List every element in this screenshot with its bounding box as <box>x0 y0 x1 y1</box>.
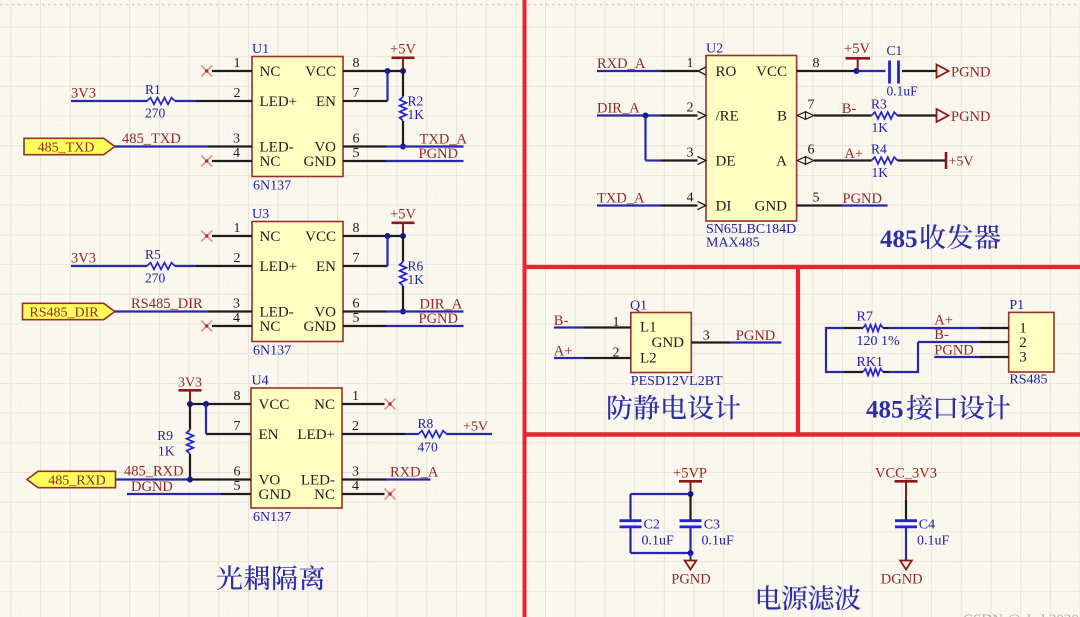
svg-text:LED+: LED+ <box>297 427 335 443</box>
svg-text:DGND: DGND <box>131 479 173 495</box>
wire R3 to PGND port <box>898 114 937 116</box>
U4 pin 6 (VO) <box>190 465 251 480</box>
svg-text:L1: L1 <box>640 320 657 336</box>
svg-text:L2: L2 <box>640 351 657 367</box>
svg-text:5: 5 <box>234 479 241 494</box>
power +5V symbol (U3) <box>390 207 416 237</box>
svg-text:RK1: RK1 <box>857 355 883 370</box>
svg-text:4: 4 <box>233 146 240 161</box>
svg-text:2: 2 <box>613 346 620 361</box>
svg-text:8: 8 <box>353 221 360 236</box>
svg-text:8: 8 <box>813 56 820 71</box>
optocoupler U1 6N137 body <box>252 57 343 177</box>
U4 pin 2 (LED+) <box>342 419 405 434</box>
svg-text:1: 1 <box>234 56 241 71</box>
power bar +5V (R4) <box>946 152 974 170</box>
svg-text:485_RXD: 485_RXD <box>48 473 106 488</box>
svg-text:A: A <box>776 154 787 170</box>
svg-text:485: 485 <box>880 226 918 253</box>
svg-text:0.1uF: 0.1uF <box>917 534 950 549</box>
svg-text:R5: R5 <box>145 247 161 262</box>
svg-text:1K: 1K <box>408 107 425 122</box>
transceiver U2 MAX485 body <box>706 56 797 222</box>
svg-text:NC: NC <box>314 397 335 413</box>
svg-text:3V3: 3V3 <box>71 251 96 267</box>
svg-text:DI: DI <box>716 199 732 215</box>
svg-text:RS485_DIR: RS485_DIR <box>131 296 203 312</box>
junction <box>385 68 391 74</box>
port RS485_DIR <box>23 303 115 320</box>
wire DIR_A <box>597 114 661 116</box>
svg-text:VCC_3V3: VCC_3V3 <box>875 466 937 482</box>
U3 pin 7 (EN) <box>343 251 388 266</box>
U3 pin 3 (LED-) <box>208 297 252 312</box>
svg-text:GND: GND <box>259 487 292 503</box>
svg-text:7: 7 <box>234 419 241 434</box>
junction <box>400 144 406 150</box>
U2 pin 1 (RO) with output arrow <box>661 56 706 75</box>
port 485_RXD (left-pointing) <box>27 471 116 488</box>
junction <box>187 477 193 483</box>
svg-text:GND: GND <box>304 154 337 170</box>
svg-text:470: 470 <box>418 440 439 455</box>
svg-text:NC: NC <box>260 64 281 80</box>
power +5VP symbol <box>673 466 707 495</box>
capacitor C4 0.1uF <box>895 521 917 527</box>
resistor R4 1K <box>872 157 898 164</box>
svg-text:0.1uF: 0.1uF <box>642 534 675 549</box>
wire RXD_A <box>597 70 661 72</box>
wire A+ net to P1 pin 1 <box>889 327 979 329</box>
wire RXD_A <box>386 478 431 480</box>
svg-text:RXD_A: RXD_A <box>597 56 646 72</box>
power port PGND (arrow) <box>937 109 991 125</box>
junction <box>643 113 649 119</box>
svg-text:7: 7 <box>353 86 360 101</box>
U2 pin 6 (A) with bidirectional arrow <box>797 143 871 165</box>
svg-text:GND: GND <box>304 319 337 335</box>
svg-text:3: 3 <box>687 146 694 161</box>
wire TXD_A <box>386 145 464 147</box>
svg-text:VCC: VCC <box>305 229 336 245</box>
P1 pin 1 stub <box>979 327 1008 329</box>
resistor R2 1K (pull-up) <box>400 71 407 147</box>
wire TXD_A <box>597 204 661 206</box>
resistor R6 1K (pull-up) <box>400 236 407 312</box>
svg-text:1: 1 <box>352 389 359 404</box>
svg-text:4: 4 <box>687 191 694 206</box>
svg-text:3: 3 <box>233 297 240 312</box>
svg-text:B: B <box>777 109 787 125</box>
U2 pin 3 (DE) with input arrow <box>661 146 706 165</box>
svg-text:C3: C3 <box>704 518 720 533</box>
red divider vertical main <box>523 0 527 617</box>
svg-text:R3: R3 <box>871 97 887 112</box>
svg-text:6N137: 6N137 <box>253 344 291 359</box>
no-connect X on U3 pin 4 <box>201 321 212 332</box>
resistor R8 470 <box>419 431 447 438</box>
svg-text:3: 3 <box>352 465 359 480</box>
svg-text:3: 3 <box>233 132 240 147</box>
svg-text:NC: NC <box>260 319 281 335</box>
optocoupler U4 6N137 body (mirrored) <box>251 388 342 508</box>
U1 pin 6 (VO) <box>343 132 386 147</box>
no-connect X on U3 pin 1 <box>201 231 212 242</box>
power port PGND (arrow) <box>937 65 991 81</box>
U1 pin 2 (LED+) <box>196 86 252 101</box>
svg-text:RO: RO <box>716 64 737 80</box>
U3 pin 2 (LED+) <box>196 251 252 266</box>
svg-text:1K: 1K <box>408 272 425 287</box>
wire 485_TXD to pin 3 <box>115 145 208 147</box>
U4 pin 4 (NC) <box>342 479 385 494</box>
wire RS485_DIR to pin 3 <box>115 310 208 312</box>
junction <box>400 233 406 239</box>
wire C3 branch <box>689 494 691 553</box>
U1 pin 8 (VCC) <box>343 56 403 71</box>
wire LED+ to R8 <box>405 433 419 435</box>
svg-text:1K: 1K <box>872 165 889 180</box>
wire A+ <box>554 357 584 359</box>
junction <box>400 309 406 315</box>
resistor RK1 <box>844 369 890 376</box>
svg-text:R9: R9 <box>157 428 173 443</box>
wire 3V3 net <box>71 100 196 102</box>
svg-text:EN: EN <box>259 427 279 443</box>
svg-text:1: 1 <box>234 221 241 236</box>
junction <box>688 491 694 497</box>
U3 pin 4 (NC) <box>212 311 252 326</box>
svg-text:RS485: RS485 <box>1009 373 1047 388</box>
wire 3V3 net <box>71 265 196 267</box>
svg-text:R4: R4 <box>871 142 887 157</box>
U3 pin 5 (GND) <box>343 311 386 326</box>
svg-text:GND: GND <box>755 199 788 215</box>
svg-text:B-: B- <box>842 101 857 117</box>
junction <box>400 68 406 74</box>
ground DGND symbol <box>881 561 923 588</box>
svg-text:4: 4 <box>233 311 240 326</box>
svg-text:+5V: +5V <box>390 207 416 223</box>
wire R8 to +5V <box>447 433 493 435</box>
section title 485收发器 (485 transceiver) <box>880 224 1000 253</box>
Q1 pin 1 <box>584 315 631 330</box>
svg-text:5: 5 <box>353 311 360 326</box>
U3 pin 1 (NC) <box>212 221 252 236</box>
svg-text:EN: EN <box>316 259 336 275</box>
svg-text:C4: C4 <box>919 518 935 533</box>
svg-text:EN: EN <box>316 94 336 110</box>
section title 光耦隔离 (optocoupler isolation) <box>217 565 324 590</box>
svg-text:/RE: /RE <box>716 109 739 125</box>
wire RK1 to B- net <box>889 342 979 373</box>
no-connect X on U1 pin 1 <box>201 66 212 77</box>
capacitor C1 0.1uF <box>890 61 899 84</box>
power +5V symbol (U2 VCC) <box>844 41 870 71</box>
U4 pin 3 (LED-) <box>342 465 386 480</box>
wire C1 to PGND port <box>902 70 936 72</box>
svg-text:DGND: DGND <box>881 572 923 588</box>
wire EN to VCC net <box>386 236 388 266</box>
svg-text:R7: R7 <box>857 310 873 325</box>
no-connect X on U4 pin 1 <box>385 399 396 410</box>
svg-text:U3: U3 <box>252 207 269 222</box>
svg-text:6: 6 <box>353 297 360 312</box>
svg-text:6N137: 6N137 <box>253 179 291 194</box>
svg-text:0.1uF: 0.1uF <box>702 534 735 549</box>
svg-text:5: 5 <box>353 146 360 161</box>
svg-text:3V3: 3V3 <box>178 376 202 391</box>
svg-text:LED+: LED+ <box>260 94 298 110</box>
wire 485_RXD to VO <box>116 478 191 480</box>
svg-text:1: 1 <box>613 315 620 330</box>
power VCC_3V3 symbol <box>875 466 937 501</box>
svg-text:NC: NC <box>260 154 281 170</box>
resistor R7 120 1% <box>844 325 890 332</box>
svg-text:270: 270 <box>145 271 166 286</box>
svg-text:7: 7 <box>808 98 815 113</box>
svg-text:8: 8 <box>234 389 241 404</box>
svg-text:C2: C2 <box>644 518 660 533</box>
svg-text:GND: GND <box>652 335 685 351</box>
red divider horizontal lower <box>523 432 1080 437</box>
wire EN to VCC net <box>386 71 388 101</box>
U1 pin 5 (GND) <box>343 146 386 161</box>
wire VCC to C1 <box>856 70 885 72</box>
U4 pin 7 (EN) <box>206 419 251 434</box>
wire EN to 3V3 net <box>205 404 207 434</box>
junction <box>688 550 694 556</box>
svg-text:U4: U4 <box>252 374 269 389</box>
Q1 pin 3 <box>691 329 730 344</box>
svg-text:1K: 1K <box>158 444 175 459</box>
wire PGND to P1 pin 3 <box>934 356 979 358</box>
svg-text:NC: NC <box>260 229 281 245</box>
section title 电源滤波 (power filtering) <box>758 585 861 610</box>
svg-text:R8: R8 <box>418 416 434 431</box>
wire R4 to +5V bar <box>898 159 946 161</box>
U2 pin 7 (B) with bidirectional arrow <box>797 98 871 120</box>
svg-text:PESD12VL2BT: PESD12VL2BT <box>631 374 723 389</box>
U1 pin 1 (NC) <box>212 56 252 71</box>
P1 pin 3 stub <box>979 356 1008 358</box>
svg-text:TXD_A: TXD_A <box>597 191 645 207</box>
connector P1 RS485 body <box>1009 312 1054 372</box>
resistor R3 1K <box>872 112 898 119</box>
svg-text:PGND: PGND <box>419 311 458 327</box>
port 485_TXD <box>24 138 115 155</box>
svg-text:485_TXD: 485_TXD <box>122 131 181 147</box>
svg-text:PGND: PGND <box>951 109 990 125</box>
U3 pin 8 (VCC) <box>343 221 403 236</box>
junction <box>385 233 391 239</box>
power 3V3 symbol (U4) <box>178 376 202 405</box>
U1 pin 7 (EN) <box>343 86 388 101</box>
capacitor C3 0.1uF <box>680 521 702 527</box>
U4 pin 1 (NC) <box>342 389 385 404</box>
wire B- <box>554 326 584 328</box>
svg-text:4: 4 <box>352 479 359 494</box>
resistor R1 270 <box>147 98 175 105</box>
U1 pin 3 (LED-) <box>208 132 252 147</box>
section title 485接口设计 (485 interface design) <box>866 395 1010 424</box>
wire C2 branch <box>631 494 691 553</box>
U3 pin 6 (VO) <box>343 297 386 312</box>
svg-text:Q1: Q1 <box>630 299 647 314</box>
wire DGND <box>127 493 221 495</box>
svg-text:6: 6 <box>234 465 241 480</box>
svg-text:+5V: +5V <box>390 42 416 58</box>
svg-text:6: 6 <box>808 143 815 158</box>
U4 pin 8 (VCC) <box>190 389 251 404</box>
svg-text:0.1uF: 0.1uF <box>887 84 919 99</box>
wire C4 to DGND <box>905 528 907 561</box>
ground PGND symbol <box>671 553 710 588</box>
svg-text:485: 485 <box>866 397 904 424</box>
wire VCC_3V3 to C4 <box>905 500 907 520</box>
U1 pin 4 (NC) <box>212 146 252 161</box>
svg-text:6N137: 6N137 <box>253 510 291 525</box>
svg-text:270: 270 <box>145 106 166 121</box>
svg-text:VCC: VCC <box>259 397 290 413</box>
svg-text:U2: U2 <box>706 42 723 57</box>
svg-text:R1: R1 <box>145 82 161 97</box>
svg-text:+5V: +5V <box>463 420 488 435</box>
svg-text:CSDN @chzh2020: CSDN @chzh2020 <box>963 612 1079 617</box>
faint dotted guide line top <box>0 4 1080 6</box>
svg-text:3V3: 3V3 <box>71 86 96 102</box>
svg-text:A+: A+ <box>844 146 863 162</box>
svg-text:1K: 1K <box>872 120 889 135</box>
U2 pin 5 (GND) <box>797 191 842 206</box>
svg-text:2: 2 <box>234 251 241 266</box>
svg-text:DE: DE <box>716 154 736 170</box>
U4 pin 5 (GND) <box>221 479 251 494</box>
svg-text:+5VP: +5VP <box>673 466 707 482</box>
svg-text:485_TXD: 485_TXD <box>38 140 95 155</box>
junction <box>853 68 859 74</box>
svg-text:120 1%: 120 1% <box>857 334 901 349</box>
no-connect X on U1 pin 4 <box>201 156 212 167</box>
svg-text:6: 6 <box>353 132 360 147</box>
wire PGND <box>386 325 464 327</box>
section title 防静电设计 (ESD design) <box>608 395 740 420</box>
svg-text:VCC: VCC <box>305 64 336 80</box>
P1 pin 2 stub <box>979 341 1008 343</box>
svg-text:485_RXD: 485_RXD <box>124 464 184 480</box>
svg-text:PGND: PGND <box>671 572 710 588</box>
wire DIR_A <box>386 310 464 312</box>
svg-text:LED+: LED+ <box>260 259 298 275</box>
no-connect X on U4 pin 4 <box>385 489 396 500</box>
resistor R9 1K (pull-up) <box>187 404 194 480</box>
Q1 pin 2 <box>584 346 631 361</box>
svg-text:8: 8 <box>353 56 360 71</box>
svg-text:PGND: PGND <box>951 65 990 81</box>
svg-text:3: 3 <box>1019 350 1027 366</box>
resistor R5 270 <box>147 263 175 270</box>
U2 pin 8 (VCC) <box>797 56 857 71</box>
wire DIR_A branch to DE <box>646 116 662 161</box>
U2 pin 4 (DI) with input arrow <box>661 191 706 210</box>
svg-text:C1: C1 <box>887 43 903 58</box>
capacitor C2 0.1uF <box>620 521 642 527</box>
svg-text:2: 2 <box>352 419 359 434</box>
junction <box>203 401 209 407</box>
svg-text:3: 3 <box>703 329 710 344</box>
svg-text:5: 5 <box>813 191 820 206</box>
svg-text:U1: U1 <box>252 42 269 57</box>
wire left loop R7/RK1 <box>826 327 844 373</box>
U2 pin 2 (/RE) with input arrow <box>661 101 706 120</box>
svg-text:B-: B- <box>934 327 949 343</box>
wire PGND <box>386 160 464 162</box>
svg-text:MAX485: MAX485 <box>706 236 760 251</box>
svg-text:VCC: VCC <box>756 64 787 80</box>
svg-text:RS485_DIR: RS485_DIR <box>29 305 99 320</box>
wire PGND <box>842 204 888 206</box>
svg-text:2: 2 <box>234 86 241 101</box>
ESD protector Q1 body <box>631 313 692 373</box>
red divider horizontal upper <box>523 265 1080 269</box>
wire PGND (Q1) <box>730 341 781 343</box>
svg-text:RXD_A: RXD_A <box>390 465 439 481</box>
svg-text:PGND: PGND <box>419 146 458 162</box>
svg-text:+5V: +5V <box>949 155 974 170</box>
svg-text:2: 2 <box>687 101 694 116</box>
svg-text:P1: P1 <box>1009 298 1024 313</box>
svg-text:7: 7 <box>353 251 360 266</box>
junction <box>187 401 193 407</box>
svg-text:DIR_A: DIR_A <box>597 101 640 117</box>
svg-text:+5V: +5V <box>844 41 870 57</box>
svg-text:1: 1 <box>687 56 694 71</box>
red divider vertical middle <box>796 267 800 435</box>
power +5V symbol (U1) <box>390 42 416 72</box>
optocoupler U3 6N137 body <box>252 222 343 342</box>
svg-text:NC: NC <box>314 487 335 503</box>
